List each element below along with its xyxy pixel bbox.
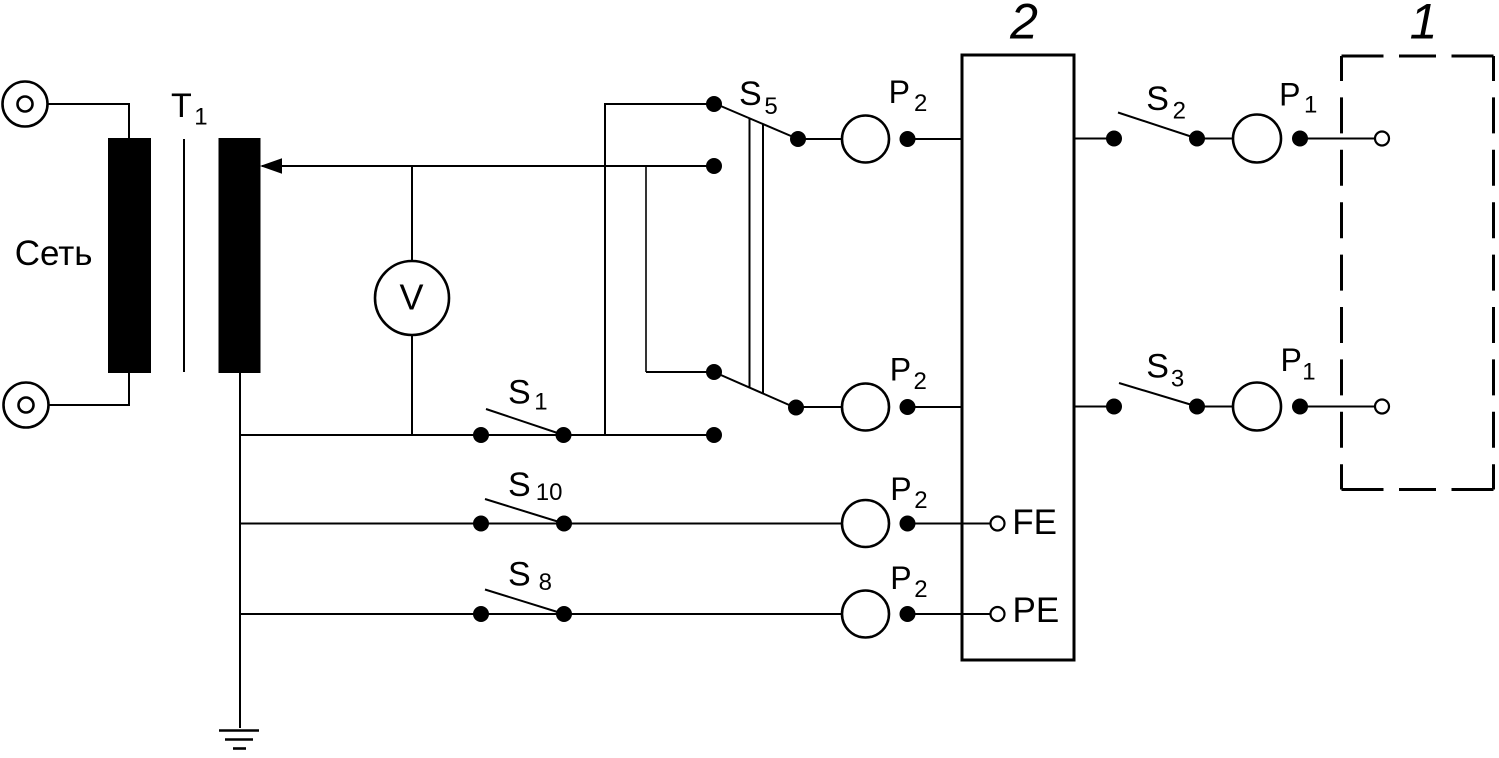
switch S5 coupling bar right xyxy=(762,124,764,393)
terminal inside box1 row2 xyxy=(1375,400,1389,414)
wire box2 right row2 xyxy=(1074,406,1114,408)
wire to box 1 xyxy=(1300,406,1342,408)
ground xyxy=(219,731,259,749)
node S3 left contact xyxy=(1106,399,1122,415)
svg-text:2: 2 xyxy=(914,487,927,514)
wire S8 branch line xyxy=(240,613,843,615)
svg-text:1: 1 xyxy=(1302,358,1315,385)
svg-text:S: S xyxy=(508,374,531,412)
wire xyxy=(796,406,842,408)
svg-text:1: 1 xyxy=(1410,0,1438,50)
wire xyxy=(798,138,842,140)
switch S2 blade xyxy=(1118,113,1197,139)
box 1 (appliance under test, dashed) xyxy=(1342,56,1494,490)
node S8 left contact xyxy=(473,606,489,622)
lamp P2 row3 xyxy=(842,500,889,547)
svg-text:Сеть: Сеть xyxy=(15,234,93,273)
lamp P1 row2 xyxy=(1233,383,1281,431)
wiper arrowhead xyxy=(260,158,282,174)
terminal inside box1 row1 xyxy=(1375,132,1389,146)
terminal X1 (top mains terminal) xyxy=(3,82,48,127)
node S3 right contact xyxy=(1189,399,1205,415)
lamp P2 row2 xyxy=(842,384,889,431)
svg-text:S: S xyxy=(1146,348,1169,386)
svg-text:10: 10 xyxy=(536,479,563,506)
switch S5 coupling bar left xyxy=(749,118,751,387)
svg-text:FE: FE xyxy=(1012,503,1057,542)
wire to box 1 xyxy=(1300,138,1342,140)
PE terminal xyxy=(991,607,1005,621)
voltmeter bottom wire xyxy=(411,335,413,435)
wire S1 branch line xyxy=(240,434,714,436)
node S10 right contact xyxy=(556,516,572,532)
svg-text:1: 1 xyxy=(1304,92,1317,119)
node S2 left contact xyxy=(1106,131,1122,147)
wire to box 2 xyxy=(908,613,963,615)
switch S5 bottom blade xyxy=(714,372,796,408)
svg-text:P: P xyxy=(889,74,910,110)
wire from X2 to primary bottom xyxy=(48,373,129,405)
voltmeter top wire xyxy=(411,166,413,261)
wire from X1 to primary top xyxy=(47,104,129,138)
wire to box 2 xyxy=(908,523,963,525)
svg-text:1: 1 xyxy=(534,389,547,416)
wire xyxy=(1197,406,1233,408)
node P2 row1 left xyxy=(790,131,806,147)
box 2 (unit under test interface) xyxy=(962,55,1074,660)
node P2 row1 right xyxy=(900,131,916,147)
wire S5 second feed xyxy=(645,166,647,372)
svg-text:S: S xyxy=(739,75,762,113)
svg-text:S: S xyxy=(508,466,531,504)
wire box2 right row1 xyxy=(1074,138,1114,140)
node P2 row2 left xyxy=(788,400,804,416)
transformer T1 primary winding xyxy=(108,138,151,373)
svg-text:3: 3 xyxy=(1171,365,1184,392)
FE terminal wire xyxy=(962,523,991,525)
svg-text:P: P xyxy=(1281,342,1302,378)
svg-text:2: 2 xyxy=(1173,98,1186,125)
svg-text:P: P xyxy=(890,471,911,507)
node S5 bottom pole xyxy=(706,364,722,380)
switch S10 blade xyxy=(485,499,564,524)
svg-text:S: S xyxy=(508,556,531,594)
wire to box 2 xyxy=(908,406,963,408)
PE terminal wire xyxy=(962,613,991,615)
node P2 row3 right xyxy=(900,516,916,532)
transformer T1 core xyxy=(183,139,185,372)
svg-text:2: 2 xyxy=(914,368,927,395)
node S1 right contact xyxy=(556,427,572,443)
lamp P2 row1 xyxy=(842,116,889,163)
svg-text:2: 2 xyxy=(914,576,927,603)
switch S5 top blade xyxy=(716,104,798,139)
node S5 top pole xyxy=(706,96,722,112)
svg-text:P: P xyxy=(890,352,911,388)
node P2 row2 right xyxy=(900,399,916,415)
svg-text:P: P xyxy=(1279,76,1300,112)
wire xyxy=(1197,138,1233,140)
lamp P2 row4 xyxy=(842,591,889,638)
terminal inside box1 row1 wire xyxy=(1342,138,1376,140)
wire S5 feed from S1 line up to top pole xyxy=(605,104,714,435)
secondary bottom trunk wire xyxy=(239,373,241,728)
node S1 line end xyxy=(706,427,722,443)
svg-text:PE: PE xyxy=(1013,591,1060,630)
node S2 right contact xyxy=(1189,131,1205,147)
voltmeter U1 xyxy=(375,261,449,335)
lamp P1 row1 xyxy=(1233,115,1281,163)
node P2 row4 right xyxy=(900,606,916,622)
switch S1 blade xyxy=(486,409,564,435)
node S1 left contact xyxy=(473,427,489,443)
node P1 row1 right xyxy=(1292,131,1308,147)
node S10 left contact xyxy=(473,516,489,532)
svg-text:V: V xyxy=(400,277,424,318)
svg-text:T: T xyxy=(171,87,192,125)
wire S10 branch line xyxy=(240,523,843,525)
switch S8 blade xyxy=(485,590,564,615)
node P1 row2 right xyxy=(1292,399,1308,415)
svg-text:5: 5 xyxy=(764,93,777,120)
svg-text:8: 8 xyxy=(539,569,552,596)
switch S3 blade xyxy=(1119,383,1197,407)
terminal X2 (bottom mains terminal) xyxy=(4,383,49,428)
wire to box 2 xyxy=(908,138,963,140)
node arrow line end xyxy=(706,158,722,174)
svg-text:2: 2 xyxy=(1009,0,1038,50)
FE terminal xyxy=(991,517,1005,531)
terminal inside box1 row2 wire xyxy=(1342,406,1376,408)
wiper arrow line to secondary xyxy=(262,165,714,167)
svg-text:S: S xyxy=(1146,80,1169,118)
transformer T1 secondary winding xyxy=(219,138,261,373)
svg-text:2: 2 xyxy=(914,90,927,117)
node S8 right contact xyxy=(556,606,572,622)
svg-text:P: P xyxy=(890,560,911,596)
svg-text:1: 1 xyxy=(194,103,207,130)
